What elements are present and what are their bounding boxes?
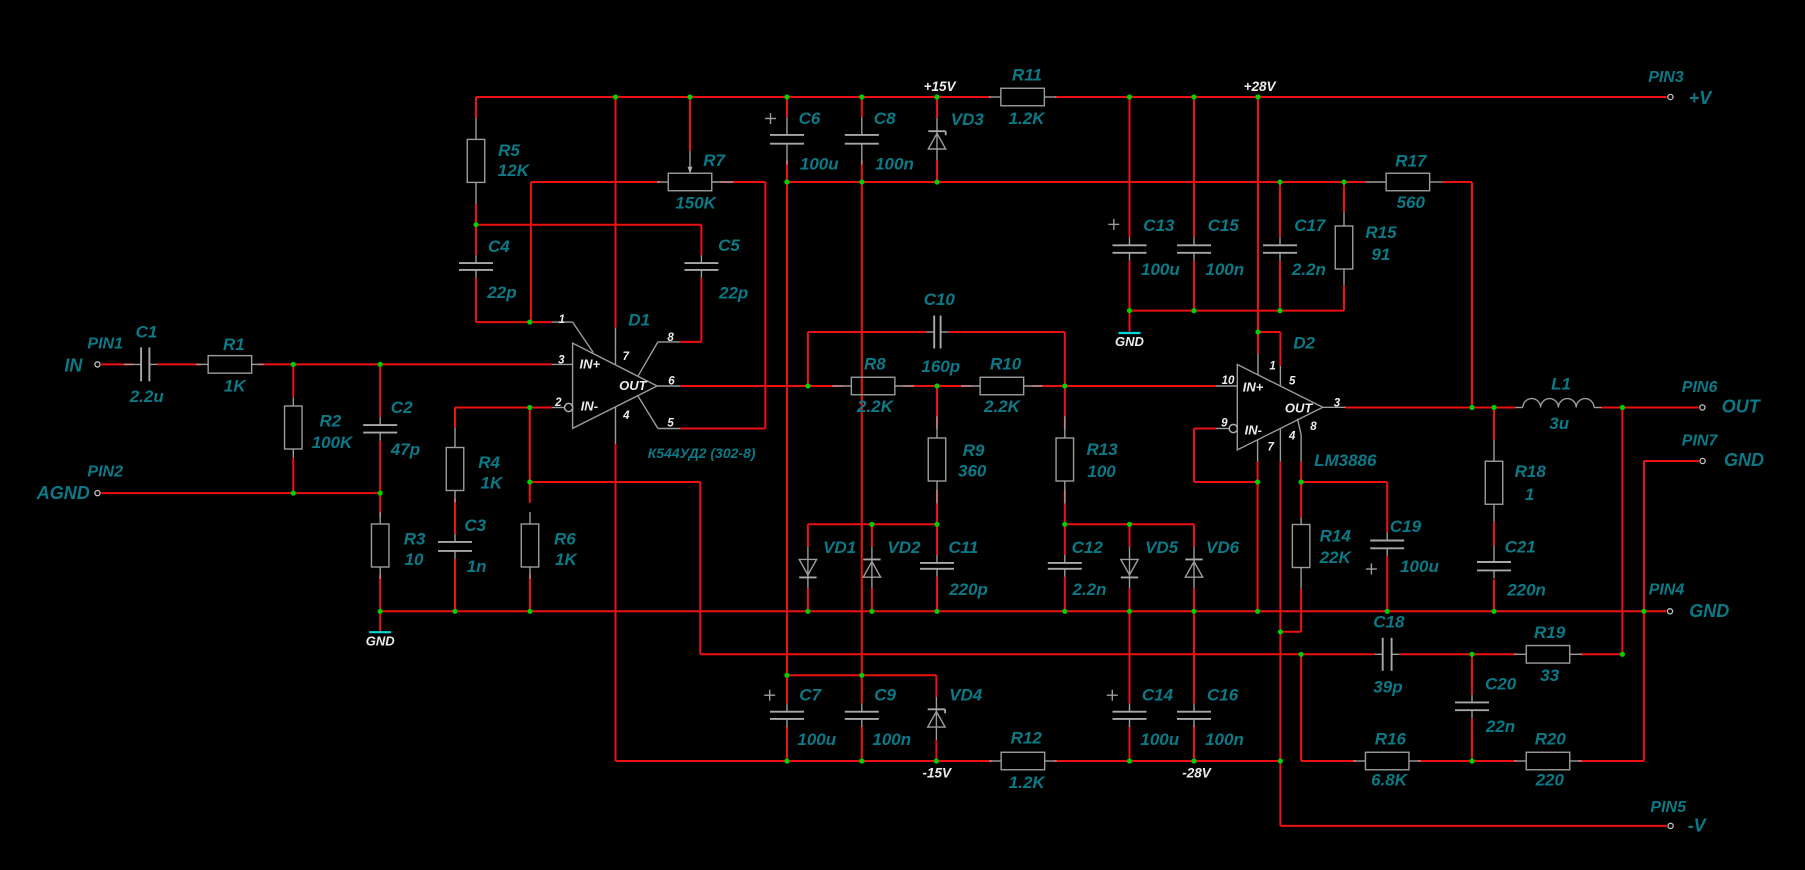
resistor R3 [379,512,381,524]
svg-text:100n: 100n [872,730,911,749]
svg-text:C8: C8 [874,109,896,128]
resistor R16 [1353,760,1365,762]
svg-text:R9: R9 [963,441,985,460]
svg-text:560: 560 [1397,193,1426,212]
svg-text:2.2K: 2.2K [856,397,895,416]
wire pin9-pin7 link [1194,481,1258,483]
wire R19 right [1580,653,1623,655]
svg-text:6: 6 [668,376,675,388]
wire D2 pin4 riser to -V [1279,462,1281,826]
diode VD3 (zener) [936,118,938,160]
wire L1 to PIN6 [1602,407,1699,409]
svg-text:C11: C11 [948,538,978,557]
svg-text:C13: C13 [1143,216,1175,235]
wire IN- row to R4 corner [455,407,530,409]
wire C5 bottom riser [700,278,702,342]
wire C10 branch riser [807,332,809,386]
wire R18 to C21 [1493,522,1495,546]
wire +15V top rail (left of R11) [476,96,991,98]
wire pin9 drop [1193,429,1195,483]
wire pin8 to C5 [680,341,701,343]
wire D1 pin7 supply riser [615,97,617,328]
svg-text:1K: 1K [224,377,247,396]
wire pin7 to ground rail [1257,482,1259,611]
capacitor C3 [454,534,456,542]
resistor R9 [936,416,938,438]
wire C20 bottom lead [1471,718,1473,761]
svg-text:PIN7: PIN7 [1682,432,1719,449]
wire GND2 stub [1129,311,1131,332]
op-amp D1 triangle [573,343,658,428]
capacitor C14 [1129,704,1131,712]
svg-text:R3: R3 [404,530,426,549]
svg-text:GND: GND [1689,601,1729,621]
terminal PIN4 [1667,609,1672,614]
wire PIN7 drop [1643,461,1645,611]
capacitor C18 [1375,653,1383,655]
wire R7 left segment from corner [531,181,660,183]
wire R5/C4/C5 node row [476,224,701,226]
svg-text:C9: C9 [874,685,896,704]
wire C1 to R1 [157,363,201,365]
terminal PIN6 [1700,405,1705,410]
diode VD6 [1193,547,1195,588]
wire C11 top lead [936,524,938,555]
wire C16 bottom lead [1193,726,1195,761]
svg-text:100: 100 [1087,462,1116,481]
svg-text:R19: R19 [1534,623,1566,642]
wire C17 bottom [1279,261,1281,311]
svg-text:R12: R12 [1011,728,1043,747]
svg-text:C16: C16 [1207,685,1239,704]
svg-text:GND: GND [1724,450,1764,470]
svg-text:R6: R6 [554,530,576,549]
svg-text:1: 1 [1525,485,1534,504]
svg-text:360: 360 [958,461,987,480]
wire global feedback line to C18 [700,653,1374,655]
svg-text:R8: R8 [864,354,886,373]
capacitor C19 [1386,533,1388,541]
wire -28V rail right of R12 [1054,760,1281,762]
wire VD3 top [936,97,938,118]
wire ground rail stub to PIN4 [1644,610,1666,612]
wire -15V rail left of R12 [616,760,993,762]
resistor R19 [1514,653,1526,655]
wire feedback node down to R16 [1300,654,1302,761]
svg-text:R17: R17 [1395,152,1428,171]
wire C14 bottom lead [1129,726,1131,761]
svg-text:1K: 1K [481,473,504,492]
wire clamp row right (C12 VD5 VD6) [1065,523,1194,525]
wire AGND line from PIN2 [101,492,380,494]
wire R17 right to corner [1443,181,1472,183]
resistor R11 [989,96,1001,98]
resistor R1 [196,363,208,365]
capacitor C2 [379,417,381,425]
wire C10 to R10 node [1064,332,1066,386]
wire pin8 red lead [1300,462,1302,482]
wire D1 pin5 horizontal [680,428,765,430]
wire VD4 top lead [935,675,937,696]
wire R13 bottom lead [1064,490,1066,524]
wire R9 bottom lead [936,490,938,524]
svg-text:C20: C20 [1485,674,1517,693]
svg-text:VD1: VD1 [823,538,856,557]
svg-text:IN+: IN+ [580,356,601,371]
capacitor C21 [1493,546,1495,563]
svg-text:1.2K: 1.2K [1009,109,1047,128]
svg-text:8: 8 [667,332,674,344]
wire D1 out to R8 [680,385,843,387]
svg-text:12K: 12K [498,161,531,180]
resistor R10 [961,385,980,387]
wire C4 bottom to pin1 row [475,278,477,322]
wire R8 to R10 [903,385,972,387]
wire C15 bottom [1193,261,1195,311]
wire C2 top lead [379,364,381,417]
svg-text:100K: 100K [312,433,354,452]
wire C19 bottom lead [1386,556,1388,611]
wire R6 top lead [529,482,531,503]
svg-text:D1: D1 [628,310,650,329]
resistor R4 [454,427,456,447]
terminal PIN3 [1668,94,1673,99]
svg-text:-15V: -15V [923,766,953,781]
wire C8-C9 link vertical [861,182,863,675]
wire R20 riser to ground rail [1643,611,1645,761]
wire C10 left [808,331,926,333]
svg-text:R16: R16 [1375,729,1407,748]
resistor R2 [292,398,294,407]
wire VD1 bottom lead [807,588,809,611]
svg-text:AGND: AGND [36,483,90,503]
svg-text:PIN2: PIN2 [87,464,123,481]
svg-text:1K: 1K [555,550,578,569]
wire D2 supply step [1258,331,1280,333]
svg-text:3: 3 [558,355,565,367]
svg-text:LM3886: LM3886 [1314,451,1377,470]
wire C3 bottom lead [454,559,456,611]
diode VD2 [871,547,873,588]
wire R14 top lead [1300,482,1302,517]
svg-text:R13: R13 [1087,440,1119,459]
resistor R7 (trimmer) [657,181,668,183]
svg-text:91: 91 [1371,245,1390,264]
resistor R15 [1343,213,1345,227]
svg-text:К544УД2 (302-8): К544УД2 (302-8) [648,445,756,461]
svg-text:VD6: VD6 [1206,538,1240,557]
svg-text:R18: R18 [1515,462,1547,481]
svg-text:2.2K: 2.2K [983,397,1022,416]
svg-text:100u: 100u [800,154,839,173]
svg-text:PIN3: PIN3 [1648,69,1684,86]
wire VD5 bottom lead [1129,588,1131,611]
svg-text:5: 5 [1289,375,1296,387]
wire C8 top [861,97,863,117]
svg-text:33: 33 [1540,666,1559,685]
svg-text:R2: R2 [320,411,342,430]
svg-text:100n: 100n [1205,730,1244,749]
svg-text:R4: R4 [478,453,500,472]
wire feedback zigzag horizontal [530,481,701,483]
svg-text:220n: 220n [1506,580,1546,599]
capacitor C12 [1064,555,1066,563]
wire VD1 top lead [807,524,809,547]
wire -V line to PIN5 [1280,825,1666,827]
svg-text:47p: 47p [390,440,420,459]
wire C7 bottom lead [786,726,788,761]
wire R9 top lead [936,386,938,429]
wire R17 riser down to OUT line [1471,182,1473,408]
svg-text:4: 4 [1288,431,1296,443]
svg-text:220: 220 [1535,771,1565,790]
wire C12 top lead [1064,524,1066,555]
svg-text:4: 4 [622,410,630,422]
wire pin1 row [476,321,552,323]
wire C12 bottom lead [1064,577,1066,612]
wire R6 bottom lead [529,574,531,611]
svg-text:R14: R14 [1320,526,1352,545]
svg-text:C17: C17 [1294,216,1327,235]
wire OUT feedback riser [1621,408,1623,655]
capacitor C7 [786,704,788,712]
wire pin7 red lead [1257,462,1259,482]
capacitor C11 [936,555,938,563]
diode VD1 [807,547,809,588]
svg-text:8: 8 [1310,421,1317,433]
svg-text:3: 3 [1334,398,1341,410]
svg-text:PIN1: PIN1 [87,335,123,352]
svg-text:C18: C18 [1373,612,1405,631]
wire pin8 node row (R14 C19) [1301,481,1387,483]
wire VD6 top lead [1193,524,1195,547]
svg-text:R11: R11 [1012,66,1042,85]
resistor R17 [1365,181,1386,183]
svg-text:IN-: IN- [1245,423,1262,438]
wire VD3 bottom [936,160,938,182]
wire D2 out to L1 [1346,407,1516,409]
capacitor C1 [124,363,141,365]
svg-text:9: 9 [1221,417,1228,429]
svg-text:1: 1 [1269,361,1275,373]
wire C8 bottom [861,160,863,182]
svg-text:150K: 150K [675,193,717,212]
capacitor C4 [475,255,477,263]
wire C9 top lead [861,675,863,703]
svg-text:C14: C14 [1142,685,1174,704]
svg-text:39p: 39p [1373,678,1402,697]
wire C10 right [949,331,1065,333]
wire R7-left riser down to D1 pin1 node [530,182,532,322]
wire R15 bottom [1343,285,1345,310]
resistor R14 [1300,517,1302,524]
svg-text:VD2: VD2 [887,538,921,557]
svg-text:VD4: VD4 [949,685,983,704]
wire D1 pin4 riser to -15V rail [615,444,617,761]
svg-text:22K: 22K [1319,548,1353,567]
capacitor C5 [700,255,702,263]
svg-text:7: 7 [623,351,630,363]
svg-text:7: 7 [1268,442,1275,454]
wire C11 bottom lead [936,577,938,612]
capacitor C16 [1193,704,1195,712]
svg-text:3u: 3u [1549,414,1569,433]
wire R3 bottom lead [379,574,381,611]
svg-text:PIN5: PIN5 [1650,799,1687,816]
terminal PIN5 [1668,823,1673,828]
wire C9 bottom lead [861,726,863,761]
wire R4 top lead [454,408,456,428]
svg-text:GND: GND [366,633,396,648]
wire R5 top lead to rail [475,97,477,118]
svg-text:+15V: +15V [924,79,957,94]
wire C13 bottom [1129,261,1131,311]
wire GND rail down to C16 [1193,611,1195,703]
wire R7 wiper from +15V rail [689,97,691,151]
ground symbol GND2 [1119,332,1141,334]
resistor R8 [832,385,851,387]
resistor R20 [1514,760,1526,762]
wire GND rail down to C14 [1129,611,1131,703]
svg-text:IN+: IN+ [1243,380,1264,395]
terminal PIN2 [95,491,100,496]
svg-text:D2: D2 [1293,333,1315,352]
svg-text:100u: 100u [797,730,836,749]
svg-text:100u: 100u [1140,730,1179,749]
op-amp D2 triangle [1237,365,1323,450]
wire GND mid rail y182 (C6/C8/VD3 bottoms to R17) [787,181,1365,183]
wire GND symbol stub [379,611,381,632]
terminal PIN1 [95,362,100,367]
wire C4 top lead [475,225,477,255]
wire D2 pin1 red lead [1257,332,1259,354]
svg-text:R5: R5 [498,141,520,160]
svg-text:C1: C1 [136,323,158,342]
svg-text:VD5: VD5 [1145,538,1179,557]
capacitor C20 [1471,694,1473,702]
svg-text:R7: R7 [703,151,726,170]
wire R16 left lead wire [1301,760,1356,762]
svg-text:C10: C10 [924,290,956,309]
wire C7/C9/VD4 top row [787,674,936,676]
svg-text:5: 5 [667,418,674,430]
svg-text:22p: 22p [718,283,748,302]
svg-text:1n: 1n [467,557,487,576]
resistor R18 [1493,440,1495,461]
wire R14 bottom lead [1300,589,1302,632]
svg-text:-28V: -28V [1182,766,1212,781]
wire clamp row left (VD1 VD2 C11) [808,523,937,525]
svg-text:C21: C21 [1505,537,1536,556]
wire R20 right [1578,760,1644,762]
svg-text:C6: C6 [799,109,821,128]
svg-text:R10: R10 [990,354,1022,373]
svg-text:+28V: +28V [1244,79,1277,94]
svg-text:22p: 22p [486,283,516,302]
wire R2 bottom lead [292,457,294,493]
svg-text:OUT: OUT [1285,400,1314,415]
svg-text:R20: R20 [1535,729,1567,748]
svg-text:100u: 100u [1141,260,1180,279]
svg-text:-V: -V [1688,816,1708,836]
wire VD5 top lead [1129,524,1131,547]
svg-text:C3: C3 [464,516,486,535]
wire R10 to D2 pin10 [1032,385,1216,387]
svg-text:220p: 220p [948,580,988,599]
wire R15 top lead [1343,182,1345,213]
svg-text:C5: C5 [718,236,740,255]
svg-text:2: 2 [554,397,562,409]
wire R18 top lead [1493,408,1495,441]
wire R4 to C3 [454,498,456,534]
diode VD4 (zener) [935,697,937,740]
wire C21 bottom lead [1493,579,1495,611]
wire C6-C7 link vertical [786,182,788,675]
svg-text:100n: 100n [875,154,914,173]
svg-text:VD3: VD3 [951,110,985,129]
wire C15 top from +28V rail [1193,97,1195,237]
resistor R12 [989,760,1001,762]
svg-text:C7: C7 [799,685,822,704]
svg-text:IN-: IN- [581,399,598,414]
wire R16 to C20/R20 node and R20 [1418,760,1517,762]
svg-text:L1: L1 [1551,375,1571,394]
svg-text:1: 1 [559,314,565,326]
wire R13 top lead [1064,386,1066,429]
svg-text:R1: R1 [223,335,245,354]
wire R3 top lead [379,493,381,517]
inductor L1 [1515,407,1523,409]
wire PIN1 to C1 [101,363,133,365]
wire riser to D1 pin5 [764,182,766,429]
wire to D1 pin2 [530,407,552,409]
svg-text:+V: +V [1689,88,1714,108]
svg-text:2.2n: 2.2n [1291,260,1326,279]
svg-text:C15: C15 [1208,216,1240,235]
svg-text:R15: R15 [1365,223,1397,242]
wire R5 bottom [475,204,477,225]
wire PIN7 lead [1644,460,1699,462]
svg-text:IN: IN [64,356,83,376]
capacitor C10 [926,331,934,333]
wire C19 top lead [1386,482,1388,532]
wire C20 top lead [1471,654,1473,694]
svg-text:C2: C2 [391,398,413,417]
wire R1 to D1 pin3 [259,363,552,365]
svg-text:22n: 22n [1485,717,1515,736]
wire C18 to R19 [1400,653,1517,655]
svg-text:C4: C4 [488,237,510,256]
svg-text:1.2K: 1.2K [1009,773,1047,792]
wire VD4 bottom lead [935,740,937,761]
wire VD2 top lead [871,524,873,547]
svg-text:C12: C12 [1072,538,1104,557]
wire +28V top rail (right of R11) to PIN3 [1055,96,1667,98]
svg-text:2.2u: 2.2u [129,387,165,406]
svg-text:C19: C19 [1390,517,1422,536]
wire D2 pin9 stub wire [1194,428,1216,430]
wire main ground rail [380,610,1644,612]
svg-text:10: 10 [405,550,424,569]
svg-text:2.2n: 2.2n [1072,580,1107,599]
svg-text:160p: 160p [921,357,960,376]
svg-text:10: 10 [1222,375,1235,387]
wire C6 top [786,97,788,117]
wire C17 top [1279,182,1281,237]
svg-text:6.8K: 6.8K [1371,771,1409,790]
svg-text:100n: 100n [1205,260,1244,279]
resistor R6 [529,512,531,524]
